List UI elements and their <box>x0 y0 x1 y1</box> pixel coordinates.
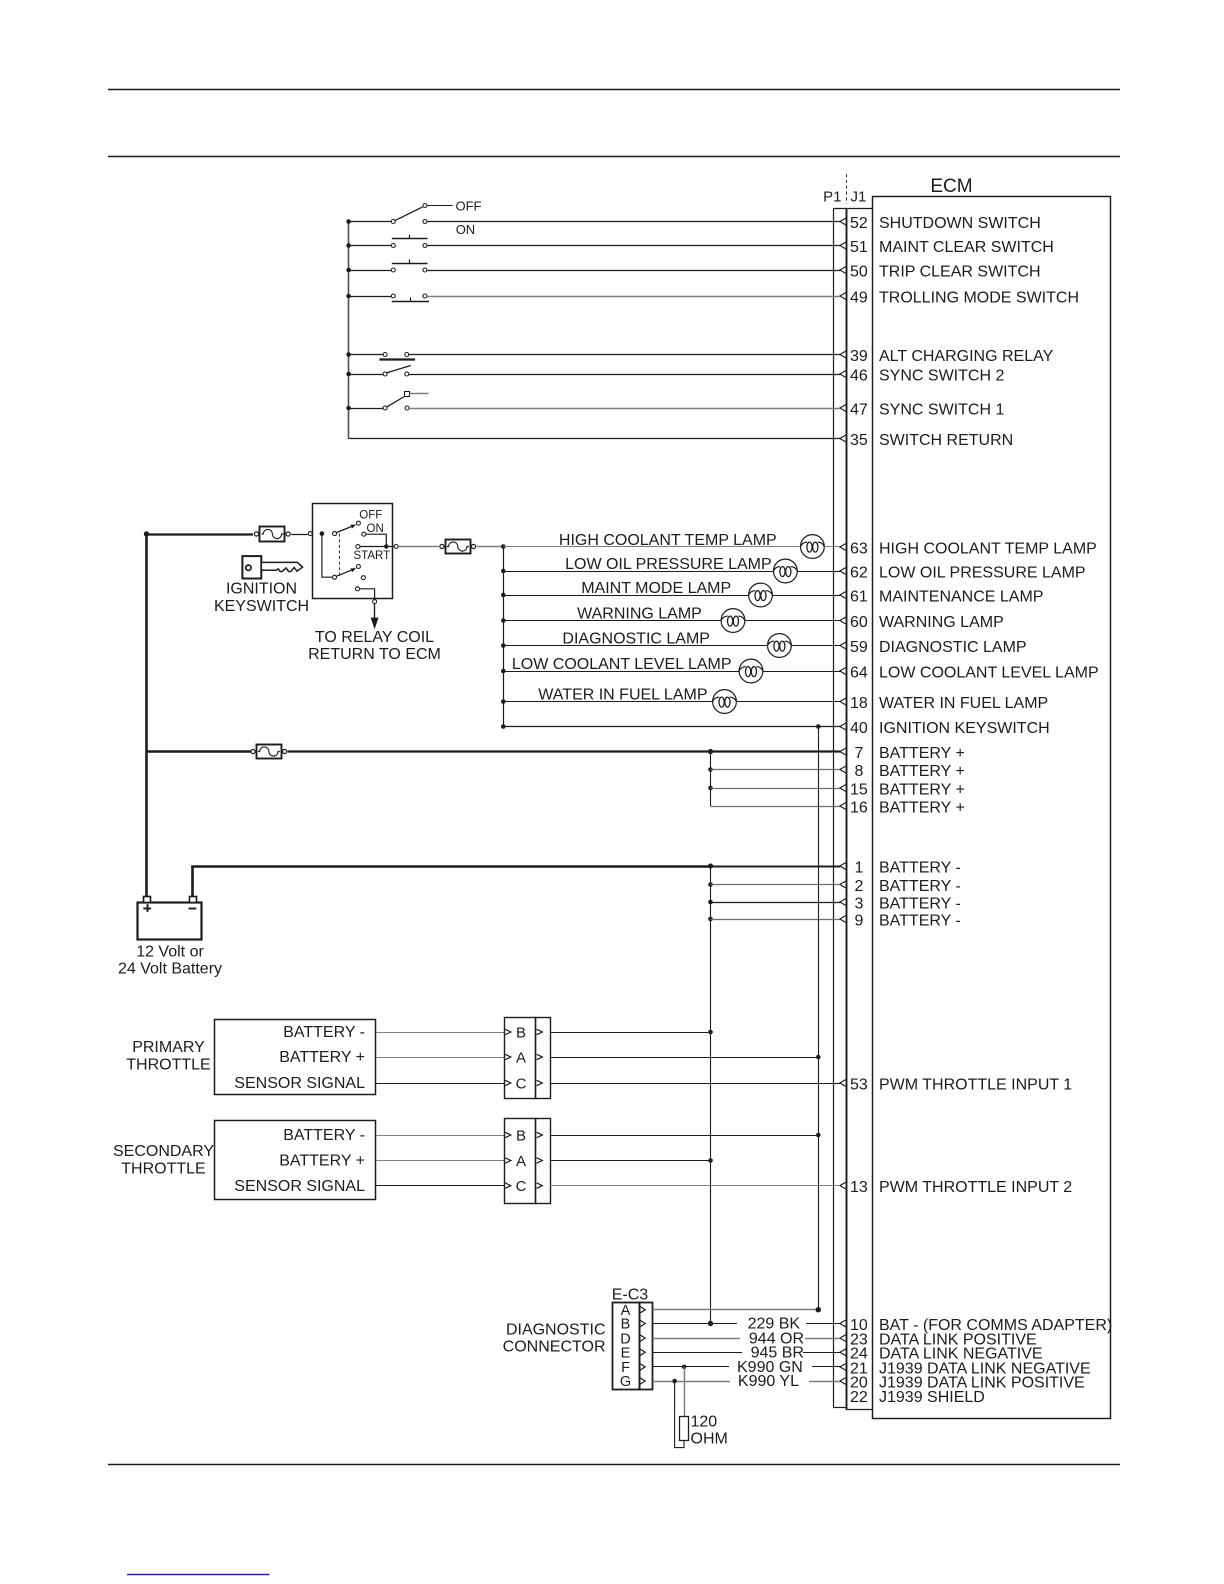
wire maint mode lamp DS3 to ECM pin <box>772 595 840 597</box>
wire K990 GN diag pin F to pin 21 <box>653 1366 729 1368</box>
diagnostic connector pin A <box>621 1303 646 1319</box>
wire secondary throttle SENSOR SIGNAL output <box>550 1185 840 1187</box>
svg-text:SENSOR SIGNAL: SENSOR SIGNAL <box>234 1178 365 1195</box>
node pin2 tap <box>708 882 713 887</box>
svg-text:18: 18 <box>850 695 868 712</box>
wire to pin 8 <box>711 769 841 771</box>
footer link underline <box>127 1574 270 1576</box>
svg-text:ON: ON <box>456 222 476 237</box>
ECM pin 62 LOW OIL PRESSURE LAMP <box>840 564 1086 581</box>
secondary throttle connector pin C <box>505 1178 542 1195</box>
wire sync switch 1 to pin 47 <box>409 408 840 410</box>
wire lamp bus to water in fuel lamp DS7 <box>503 701 712 703</box>
wire primary throttle BATTERY + to connector <box>376 1057 505 1059</box>
node keyswitch output <box>384 544 389 549</box>
wire primary throttle SENSOR SIGNAL output <box>550 1083 840 1085</box>
ECM pin 51 MAINT CLEAR SWITCH <box>840 239 1054 256</box>
ECM pin 61 MAINTENANCE LAMP <box>840 588 1044 605</box>
arrow to relay coil <box>374 604 376 620</box>
wire lamp bus to diagnostic lamp DS5 <box>503 645 767 647</box>
svg-text:PWM THROTTLE INPUT 1: PWM THROTTLE INPUT 1 <box>879 1076 1072 1093</box>
svg-text:KEYSWITCH: KEYSWITCH <box>214 598 309 615</box>
svg-text:HIGH COOLANT TEMP LAMP: HIGH COOLANT TEMP LAMP <box>879 540 1097 557</box>
svg-text:DIAGNOSTIC LAMP: DIAGNOSTIC LAMP <box>562 630 710 647</box>
svg-text:53: 53 <box>850 1076 868 1093</box>
svg-text:BATTERY +: BATTERY + <box>279 1153 365 1170</box>
svg-text:62: 62 <box>850 564 868 581</box>
node battery minus junction <box>708 863 713 868</box>
svg-text:46: 46 <box>850 367 868 384</box>
node pin3 tap <box>708 900 713 905</box>
ECM pin 49 TROLLING MODE SWITCH <box>840 289 1079 306</box>
svg-text:THROTTLE: THROTTLE <box>121 1160 205 1177</box>
trip clear switch S3 (momentary pushbutton) <box>391 259 427 272</box>
svg-text:IGNITION: IGNITION <box>226 580 297 597</box>
svg-text:40: 40 <box>850 720 868 737</box>
wire high coolant temp lamp DS1 to ECM pin <box>824 546 840 548</box>
svg-text:TO RELAY COIL: TO RELAY COIL <box>315 629 434 646</box>
svg-text:K990 YL: K990 YL <box>738 1373 799 1390</box>
ECM pin 50 TRIP CLEAR SWITCH <box>840 263 1041 280</box>
svg-text:SHUTDOWN SWITCH: SHUTDOWN SWITCH <box>879 215 1041 232</box>
ECM pin 15 BATTERY + <box>840 781 965 798</box>
node lamp bus y645 <box>501 643 506 648</box>
node lamp bus y595 <box>501 593 506 598</box>
wire lamp bus to pin 40 ignition keyswitch input <box>503 726 840 728</box>
ECM pin 35 SWITCH RETURN <box>840 432 1013 449</box>
ECM pin 21 J1939 DATA LINK NEGATIVE <box>840 1360 1091 1377</box>
node switch bus y245 <box>346 243 351 248</box>
node lamp bus y620 <box>501 618 506 623</box>
keyswitch lower pole blade <box>333 568 357 579</box>
low oil pressure lamp DS2 <box>774 559 798 583</box>
wire secondary throttle BATTERY + to connector <box>376 1160 505 1162</box>
ECM pin 53 PWM THROTTLE INPUT 1 <box>840 1076 1073 1093</box>
svg-text:SWITCH RETURN: SWITCH RETURN <box>879 432 1013 449</box>
svg-text:3: 3 <box>854 895 863 912</box>
secondary throttle connector pin B <box>505 1127 542 1144</box>
battery BT1 <box>138 897 202 940</box>
svg-text:BATTERY -: BATTERY - <box>283 1127 365 1144</box>
svg-text:BATTERY +: BATTERY + <box>879 763 965 780</box>
ECM pin 7 BATTERY + <box>840 745 965 762</box>
node pin8 tap <box>708 767 713 772</box>
wire to sync switch 1 <box>350 408 384 410</box>
wire diagnostic lamp DS5 to ECM pin <box>791 645 840 647</box>
node switch bus y408 <box>346 406 351 411</box>
sync switch 2 S5 <box>383 366 411 377</box>
node lamp bus y701 <box>501 699 506 704</box>
wire sync switch 1 upper throw stub <box>409 393 428 395</box>
water in fuel lamp DS7 <box>713 690 737 714</box>
low coolant level lamp DS6 <box>739 659 763 683</box>
keyswitch START contact <box>356 545 360 549</box>
svg-text:E: E <box>621 1346 631 1362</box>
wire secondary throttle BATTERY - output <box>550 1135 818 1137</box>
ECM pin 8 BATTERY + <box>840 763 965 780</box>
fuse F1 (keyswitch feed) <box>254 527 290 542</box>
svg-text:63: 63 <box>850 540 868 557</box>
wire 945 BR diag pin E to pin 24 <box>653 1352 742 1354</box>
keyswitch output terminal <box>394 545 398 549</box>
keyswitch relay contact <box>356 587 360 591</box>
svg-text:24 Volt Battery: 24 Volt Battery <box>118 961 222 978</box>
wire secondary throttle BATTERY - to connector <box>376 1135 505 1137</box>
wire battery bus to keyswitch fuse <box>147 533 254 535</box>
ECM pin 16 BATTERY + <box>840 799 965 816</box>
node keyswitch bus tap <box>816 724 821 729</box>
svg-text:OFF: OFF <box>456 198 482 213</box>
maint clear switch S2 (momentary pushbutton) <box>391 235 427 248</box>
wire low oil pressure lamp DS2 to ECM pin <box>797 571 840 573</box>
svg-text:LOW COOLANT LEVEL LAMP: LOW COOLANT LEVEL LAMP <box>512 656 732 673</box>
diagnostic connector pin G <box>620 1374 645 1390</box>
wire trip clear switch S3 to pin 50 <box>427 270 840 272</box>
node secondary throttle BATTERY - junction <box>816 1133 821 1138</box>
ECM pin 9 BATTERY - <box>840 912 961 929</box>
svg-text:B: B <box>621 1317 631 1333</box>
wire to sync switch 2 <box>350 374 384 376</box>
node secondary throttle BATTERY + junction <box>708 1158 713 1163</box>
wire lamp bus to warning lamp DS4 <box>503 620 721 622</box>
node battery bus top <box>144 531 149 536</box>
node switch bus y221 <box>346 219 351 224</box>
battery plus sub-bus vertical wire <box>710 752 712 807</box>
node keyswitch input <box>320 531 325 536</box>
ignition key symbol <box>242 556 302 578</box>
svg-text:A: A <box>516 1049 526 1066</box>
wire to pin 15 <box>711 788 841 790</box>
svg-text:SYNC SWITCH 2: SYNC SWITCH 2 <box>879 367 1004 384</box>
node switch bus y354 <box>346 352 351 357</box>
wire warning lamp DS4 to ECM pin <box>745 620 840 622</box>
diagnostic connector pin E <box>621 1346 646 1362</box>
svg-text:60: 60 <box>850 614 868 631</box>
svg-text:BATTERY +: BATTERY + <box>279 1049 365 1066</box>
svg-text:BATTERY +: BATTERY + <box>879 799 965 816</box>
keyswitch linkage dashed line <box>339 534 341 577</box>
svg-text:49: 49 <box>850 289 868 306</box>
wire keyswitch input to lower blade <box>322 534 333 578</box>
svg-text:12 Volt or: 12 Volt or <box>136 944 204 961</box>
svg-text:A: A <box>516 1153 526 1170</box>
diagnostic connector E-C3 box <box>613 1303 653 1390</box>
svg-text:1: 1 <box>854 859 863 876</box>
wire to shutdown switch <box>350 221 392 223</box>
high coolant temp lamp DS1 <box>801 535 825 559</box>
J1 connector strip <box>846 209 848 1410</box>
diagnostic connector pin D <box>620 1331 645 1347</box>
svg-text:DIAGNOSTIC: DIAGNOSTIC <box>506 1321 606 1338</box>
svg-text:CONNECTOR: CONNECTOR <box>503 1339 606 1356</box>
P1/J1 divider dashed <box>846 174 848 204</box>
primary throttle connector pin A <box>505 1049 542 1066</box>
warning lamp DS4 <box>721 609 745 633</box>
svg-text:2: 2 <box>854 878 863 895</box>
wire secondary throttle SENSOR SIGNAL to connector <box>376 1185 505 1187</box>
wire water in fuel lamp DS7 to ECM pin <box>736 701 840 703</box>
wire F tap to resistor <box>684 1367 686 1417</box>
ECM pin 22 J1939 SHIELD <box>850 1389 985 1406</box>
svg-text:ECM: ECM <box>930 176 972 197</box>
keyswitch ON contact <box>362 532 366 536</box>
wire primary throttle BATTERY + output <box>550 1057 818 1059</box>
svg-text:51: 51 <box>850 239 868 256</box>
wire lamp bus to high coolant temp lamp DS1 <box>503 546 800 548</box>
ECM pin 39 ALT CHARGING RELAY <box>840 348 1054 365</box>
wire resistor to G tap <box>675 1381 684 1448</box>
ECM pin 3 BATTERY - <box>840 895 961 912</box>
sync switch 1 S6 <box>383 392 409 411</box>
resistor R1 120 OHM <box>680 1417 689 1441</box>
svg-text:B: B <box>516 1024 526 1041</box>
svg-text:C: C <box>516 1075 527 1092</box>
wire fuse F2 to lamp bus <box>477 546 504 548</box>
trolling mode switch S4 (momentary, bar below) <box>391 294 429 302</box>
svg-text:BATTERY -: BATTERY - <box>879 895 961 912</box>
svg-text:J1: J1 <box>851 189 867 206</box>
node switch bus y296 <box>346 294 351 299</box>
wire to pin 16 <box>711 806 841 808</box>
ECM pin 2 BATTERY - <box>840 878 961 895</box>
wire diag pin A to switched battery bus <box>653 1309 819 1311</box>
node resistor tap F <box>682 1365 687 1370</box>
node lamp bus y546 <box>501 544 506 549</box>
wire shutdown switch to pin 52 <box>427 221 840 223</box>
wire lamp bus to maint mode lamp DS3 <box>503 595 748 597</box>
svg-text:SYNC SWITCH 1: SYNC SWITCH 1 <box>879 401 1004 418</box>
wire low coolant level lamp DS6 to ECM pin <box>763 671 840 673</box>
svg-text:BATTERY -: BATTERY - <box>283 1024 365 1041</box>
ECM pin 64 LOW COOLANT LEVEL LAMP <box>840 664 1099 681</box>
svg-text:SECONDARY: SECONDARY <box>113 1143 214 1160</box>
wire maint clear switch S2 to pin 51 <box>427 245 840 247</box>
wire battery minus to pin 1 <box>191 865 710 868</box>
svg-text:WATER IN FUEL LAMP: WATER IN FUEL LAMP <box>538 686 707 703</box>
ECM pin 13 PWM THROTTLE INPUT 2 <box>840 1179 1073 1196</box>
node diag B junction <box>708 1321 713 1326</box>
page footer rule <box>108 1464 1120 1466</box>
primary throttle connector <box>505 1018 551 1099</box>
svg-text:SENSOR SIGNAL: SENSOR SIGNAL <box>234 1075 365 1092</box>
primary throttle connector pin C <box>505 1075 542 1092</box>
wire to pin 3 <box>711 902 841 904</box>
wire switch return to pin 35 <box>349 438 841 440</box>
diagnostic connector pin B <box>621 1317 646 1333</box>
wire lamp bus to low oil pressure lamp DS2 <box>503 571 773 573</box>
keyswitch entry terminal <box>308 532 312 536</box>
svg-text:WARNING LAMP: WARNING LAMP <box>577 605 702 622</box>
node primary throttle BATTERY + junction <box>816 1055 821 1060</box>
switch bus vertical wire <box>348 222 350 439</box>
node lamp bus y671 <box>501 669 506 674</box>
wire fuse F1 to ignition keyswitch <box>291 534 308 536</box>
node diag A junction <box>816 1307 821 1312</box>
battery positive bus vertical wire <box>145 534 148 902</box>
svg-text:BATTERY +: BATTERY + <box>879 781 965 798</box>
wire OFF stub <box>427 205 453 207</box>
ignition keyswitch box <box>313 504 393 599</box>
wire to maint clear switch S2 <box>350 245 392 247</box>
ECM pin 63 HIGH COOLANT TEMP LAMP <box>840 540 1097 557</box>
wire battery bus to fuse F3 <box>147 750 251 753</box>
svg-text:59: 59 <box>850 639 868 656</box>
svg-text:47: 47 <box>850 401 868 418</box>
wire primary throttle BATTERY - output <box>550 1032 710 1034</box>
wire relay contact to box bottom <box>360 589 375 599</box>
ECM pin 46 SYNC SWITCH 2 <box>840 367 1005 384</box>
secondary throttle connector pin A <box>505 1153 542 1170</box>
svg-text:PRIMARY: PRIMARY <box>132 1039 205 1056</box>
wire to trolling mode switch <box>350 296 392 298</box>
wire battery negative terminal riser <box>191 866 194 897</box>
node switch bus y270 <box>346 268 351 273</box>
svg-text:ON: ON <box>367 523 384 535</box>
node pin15 tap <box>708 786 713 791</box>
lamp feed bus vertical wire <box>503 547 505 727</box>
svg-text:BATTERY -: BATTERY - <box>879 859 961 876</box>
svg-text:64: 64 <box>850 664 868 681</box>
ECM pin 40 IGNITION KEYSWITCH <box>840 720 1050 737</box>
ECM pin 20 J1939 DATA LINK POSITIVE <box>840 1374 1085 1391</box>
maint mode lamp DS3 <box>749 583 773 607</box>
svg-text:RETURN TO ECM: RETURN TO ECM <box>308 646 441 663</box>
svg-text:TROLLING MODE SWITCH: TROLLING MODE SWITCH <box>879 289 1079 306</box>
fuse F2 (keyswitch output) <box>440 540 476 554</box>
svg-text:IGNITION KEYSWITCH: IGNITION KEYSWITCH <box>879 720 1050 737</box>
wire 944 OR diag pin D to pin 23 <box>653 1338 740 1340</box>
page header rule bottom <box>108 156 1120 158</box>
svg-text:DIAGNOSTIC LAMP: DIAGNOSTIC LAMP <box>879 639 1027 656</box>
svg-text:8: 8 <box>854 763 863 780</box>
svg-text:C: C <box>516 1178 527 1195</box>
keyswitch lower lower throw contact <box>361 576 365 580</box>
svg-text:39: 39 <box>850 348 868 365</box>
svg-text:BATTERY +: BATTERY + <box>879 745 965 762</box>
svg-text:PWM THROTTLE INPUT 2: PWM THROTTLE INPUT 2 <box>879 1179 1072 1196</box>
node resistor tap G <box>672 1379 677 1384</box>
keyswitch upper pole blade <box>333 525 357 536</box>
svg-text:120: 120 <box>691 1413 718 1430</box>
svg-text:B: B <box>516 1127 526 1144</box>
primary throttle box <box>215 1020 376 1095</box>
node lamp bus y726 <box>501 724 506 729</box>
svg-text:15: 15 <box>850 781 868 798</box>
wire fuse F3 to pin 7 <box>288 750 841 752</box>
wire 229 BK diag pin B to pin 10 <box>653 1323 737 1325</box>
svg-text:THROTTLE: THROTTLE <box>126 1056 210 1073</box>
battery minus bus vertical wire <box>710 866 712 1324</box>
alt charging relay contact K1 <box>379 353 415 360</box>
ECM pin 23 DATA LINK POSITIVE <box>840 1332 1037 1349</box>
node primary throttle BATTERY - junction <box>708 1030 713 1035</box>
node battery plus junction <box>708 749 713 754</box>
svg-text:16: 16 <box>850 799 868 816</box>
wire sync switch 2 to pin 46 <box>409 374 841 376</box>
shutdown switch S1 (OFF/ON toggle) <box>391 204 427 224</box>
svg-text:MAINT CLEAR SWITCH: MAINT CLEAR SWITCH <box>879 239 1054 256</box>
ECM box U1 <box>873 197 1111 1419</box>
ECM pin 24 DATA LINK NEGATIVE <box>840 1346 1043 1363</box>
svg-text:ALT CHARGING RELAY: ALT CHARGING RELAY <box>879 348 1054 365</box>
ECM pin 52 SHUTDOWN SWITCH <box>840 215 1041 232</box>
ECM pin 59 DIAGNOSTIC LAMP <box>840 639 1027 656</box>
ECM pin 60 WARNING LAMP <box>840 614 1004 631</box>
keyswitch OFF contact <box>356 521 360 525</box>
wire K990 YL diag pin G to pin 20 <box>653 1381 730 1383</box>
svg-text:LOW OIL PRESSURE LAMP: LOW OIL PRESSURE LAMP <box>879 564 1086 581</box>
svg-text:LOW COOLANT LEVEL LAMP: LOW COOLANT LEVEL LAMP <box>879 664 1099 681</box>
svg-text:E-C3: E-C3 <box>612 1287 649 1304</box>
primary throttle connector pin B <box>505 1024 542 1041</box>
ECM pin 18 WATER IN FUEL LAMP <box>840 695 1048 712</box>
svg-text:G: G <box>620 1374 631 1390</box>
svg-text:START: START <box>354 550 391 562</box>
wire START contact to output <box>360 546 394 548</box>
ECM pin 47 SYNC SWITCH 1 <box>840 401 1005 418</box>
node switch bus y374 <box>346 372 351 377</box>
svg-text:P1: P1 <box>823 189 841 206</box>
svg-text:BATTERY -: BATTERY - <box>879 912 961 929</box>
svg-text:50: 50 <box>850 263 868 280</box>
switched battery bus vertical wire <box>818 727 820 1310</box>
diagnostic lamp DS5 <box>768 634 792 658</box>
wire to trip clear switch S3 <box>350 270 392 272</box>
P1 connector strip <box>833 209 835 1407</box>
wire lamp bus to low coolant level lamp DS6 <box>503 671 739 673</box>
fuse F3 (ECM battery feed) <box>251 745 287 759</box>
svg-text:J1939 SHIELD: J1939 SHIELD <box>879 1389 985 1406</box>
wire to pin 2 <box>711 884 841 886</box>
svg-text:MAINTENANCE LAMP: MAINTENANCE LAMP <box>879 588 1043 605</box>
secondary throttle connector <box>505 1119 551 1204</box>
svg-text:13: 13 <box>850 1179 868 1196</box>
secondary throttle box <box>215 1121 376 1200</box>
wire secondary throttle BATTERY + output <box>550 1160 710 1162</box>
svg-text:OFF: OFF <box>359 510 382 522</box>
svg-text:35: 35 <box>850 432 868 449</box>
wire keyswitch output to fuse F2 <box>398 546 438 548</box>
wire relay contact to pin 39 <box>409 354 841 356</box>
node pin9 tap <box>708 917 713 922</box>
svg-text:9: 9 <box>854 912 863 929</box>
svg-text:BATTERY -: BATTERY - <box>879 878 961 895</box>
ECM pin 10 BAT - (FOR COMMS ADAPTER) <box>840 1317 1112 1334</box>
page header rule top <box>108 89 1120 91</box>
svg-text:7: 7 <box>854 745 863 762</box>
node lamp bus y571 <box>501 569 506 574</box>
wire to pin 9 <box>711 919 841 921</box>
svg-text:WARNING LAMP: WARNING LAMP <box>879 614 1004 631</box>
wire primary throttle SENSOR SIGNAL to connector <box>376 1083 505 1085</box>
svg-text:MAINT MODE LAMP: MAINT MODE LAMP <box>581 580 731 597</box>
svg-text:22: 22 <box>850 1389 868 1406</box>
keyswitch lower upper throw contact <box>356 565 360 569</box>
svg-text:WATER IN FUEL LAMP: WATER IN FUEL LAMP <box>879 695 1048 712</box>
wire primary throttle BATTERY - to connector <box>376 1032 505 1034</box>
wire trolling mode switch to pin 49 <box>427 296 840 298</box>
diagnostic connector pin F <box>621 1360 645 1376</box>
wire to alt charging relay contact <box>350 354 384 356</box>
svg-text:52: 52 <box>850 215 868 232</box>
svg-text:HIGH COOLANT TEMP LAMP: HIGH COOLANT TEMP LAMP <box>559 532 777 549</box>
svg-text:61: 61 <box>850 588 868 605</box>
ECM pin 1 BATTERY - <box>840 859 961 876</box>
svg-text:TRIP CLEAR SWITCH: TRIP CLEAR SWITCH <box>879 263 1041 280</box>
wire ON contact to START row <box>366 534 386 546</box>
svg-text:LOW OIL PRESSURE LAMP: LOW OIL PRESSURE LAMP <box>565 556 772 573</box>
keyswitch bottom terminal <box>373 600 377 604</box>
